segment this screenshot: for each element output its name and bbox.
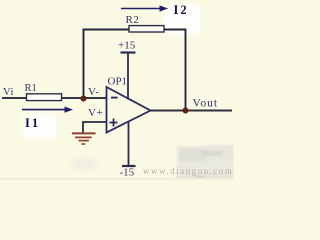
wire: R1 to op-amp V- <box>61 97 107 99</box>
wire: R2 right to corner, down to output node <box>164 30 186 111</box>
resistor R1 body <box>27 94 62 101</box>
wire: +15 supply down into op-amp top <box>127 53 129 100</box>
resistor R2 body <box>129 26 164 32</box>
wire: V+ input with corner down to ground <box>83 122 107 133</box>
wire: output to Vout <box>150 110 232 112</box>
op-amp plus sign <box>110 122 118 124</box>
svg-text:Vout: Vout <box>193 98 219 110</box>
current arrow I1 <box>22 107 73 113</box>
bottom edge strip <box>0 178 234 181</box>
white blob behind I1 <box>23 114 56 139</box>
op-amp U1 triangle <box>107 87 151 133</box>
svg-text:I1: I1 <box>25 116 40 130</box>
svg-text:V-: V- <box>88 86 100 98</box>
svg-text:-15: -15 <box>120 167 135 179</box>
+15 supply bar <box>121 51 136 53</box>
-15 supply bar <box>122 165 136 167</box>
svg-text:+15: +15 <box>118 40 136 52</box>
svg-text:R2: R2 <box>126 14 140 26</box>
junction node at V- input <box>81 96 86 101</box>
white blob behind I2 <box>164 4 200 35</box>
svg-text:V+: V+ <box>88 107 103 119</box>
wire: feedback left vertical + top horizontal to R2 <box>84 30 130 99</box>
current arrow I2 <box>121 5 168 11</box>
svg-text:Vi: Vi <box>3 87 14 98</box>
ground symbol <box>72 133 96 144</box>
svg-text:I2: I2 <box>174 3 189 17</box>
wire: op-amp bottom down to -15 supply <box>128 122 130 167</box>
svg-text:R1: R1 <box>25 83 37 94</box>
faint blob bottom left-center <box>71 158 97 170</box>
faint blob above watermark <box>176 145 234 180</box>
wire: input Vi to R1 <box>2 97 27 99</box>
svg-text:www.diangon.com: www.diangon.com <box>143 166 233 176</box>
svg-text:OP1: OP1 <box>108 76 128 88</box>
junction node at output <box>183 108 188 113</box>
op-amp minus sign <box>111 97 118 99</box>
